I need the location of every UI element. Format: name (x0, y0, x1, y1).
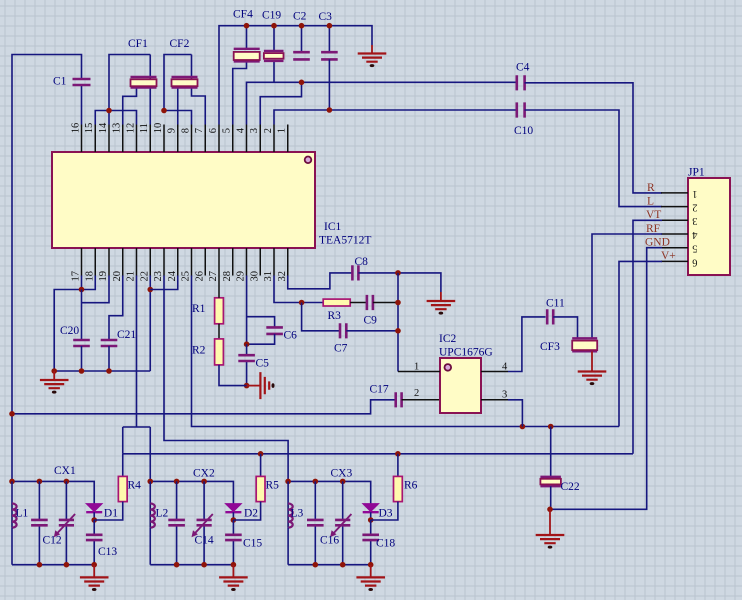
svg-text:22: 22 (139, 271, 150, 282)
ceramic filter CF2 (172, 77, 198, 88)
IC1 pin 28 (232, 248, 234, 276)
wire C22 bottom lead (550, 486, 552, 509)
junction C3 bottom node (327, 107, 333, 113)
svg-text:R5: R5 (266, 480, 280, 492)
junction C2 bus (299, 23, 305, 29)
svg-text:4: 4 (692, 229, 698, 240)
junction CX2 ground node (231, 562, 237, 568)
wire VT bus (123, 453, 633, 455)
svg-text:C1: C1 (53, 76, 67, 88)
junction pin14 (106, 108, 112, 114)
wire CX2 bottom rail (150, 564, 233, 566)
junction CX2 C bottom (174, 562, 180, 568)
ground G4 (53, 371, 55, 380)
junction pin10 (161, 108, 167, 114)
wire C2 top lead (301, 26, 303, 53)
wire R3 to C9 (350, 302, 367, 304)
svg-text:C16: C16 (320, 535, 339, 547)
svg-text:12: 12 (126, 123, 137, 134)
svg-text:CF4: CF4 (233, 9, 253, 21)
svg-text:C20: C20 (60, 325, 79, 337)
capacitor C21 (101, 340, 118, 346)
svg-text:10: 10 (153, 123, 164, 134)
wire R2 bottom to C5 node (219, 365, 247, 386)
IC1 pin 18 (94, 248, 96, 276)
svg-text:R: R (647, 182, 655, 194)
wire C22 ground stem (549, 509, 551, 535)
wire R4 bottom to diode node (94, 502, 123, 520)
wire C20 bottom (81, 346, 83, 371)
svg-text:L1: L1 (16, 508, 29, 520)
JP1 pin 5 (661, 247, 688, 249)
ground G1 top right (371, 45, 373, 53)
svg-text:13: 13 (112, 123, 123, 134)
wire C7 drop and row (302, 303, 340, 331)
wire V+ from JP1 down to V+ bus (619, 261, 662, 426)
svg-text:3: 3 (692, 215, 697, 226)
svg-text:6: 6 (208, 128, 219, 133)
svg-text:CX2: CX2 (193, 468, 215, 480)
wire pin20 jog to C21 (109, 276, 123, 341)
IC1 pin 5 (232, 125, 234, 153)
svg-text:14: 14 (98, 122, 109, 133)
capacitor CX2 fixed (176, 481, 178, 564)
JP1 pin 4 (661, 233, 688, 235)
wire pin22 down to rail (149, 276, 151, 372)
wire pin10 to pin8 tie (164, 111, 192, 125)
IC1 pin 2 (273, 125, 275, 153)
svg-text:C12: C12 (43, 535, 62, 547)
ceramic filter CF1 (131, 77, 157, 88)
IC1 pin 7 (204, 125, 206, 153)
svg-text:C15: C15 (243, 537, 262, 549)
junction pin22 (147, 287, 153, 293)
wire top bus pin6 to ground (219, 26, 372, 125)
svg-text:30: 30 (249, 271, 260, 282)
resistor R6 (397, 454, 399, 477)
svg-text:5: 5 (692, 243, 697, 254)
wire pin31 to R3 row (274, 276, 323, 303)
svg-text:31: 31 (263, 271, 274, 282)
svg-text:R6: R6 (404, 480, 418, 492)
svg-text:19: 19 (98, 271, 109, 282)
wire C17 to IC2 pin2 (402, 399, 440, 401)
IC1 pin 4 (246, 125, 248, 153)
wire R5 bottom to diode node (233, 502, 260, 520)
svg-text:28: 28 (222, 271, 233, 282)
wire CF2 left lead to pin9 (177, 88, 179, 125)
ground G3 (578, 372, 607, 380)
junction ground stem (51, 368, 57, 374)
trimmer capacitor C14 (203, 481, 205, 564)
IC1 pin 24 (177, 248, 179, 276)
wire pin22 to pin24 (150, 276, 178, 290)
svg-text:32: 32 (277, 271, 288, 282)
svg-text:L: L (647, 196, 654, 208)
JP1 pin 3 (661, 219, 688, 221)
ground G5 rotated (260, 372, 269, 399)
svg-text:JP1: JP1 (688, 167, 705, 179)
svg-text:24: 24 (167, 270, 178, 281)
svg-text:IC2: IC2 (439, 333, 457, 345)
svg-text:2: 2 (263, 128, 274, 133)
IC1 pin 11 (149, 125, 151, 153)
ground G2 (440, 292, 442, 301)
diode D1 (86, 504, 102, 512)
wire to rotated ground (247, 385, 261, 387)
wire diode to cap node (93, 512, 95, 520)
wire pins 15-14-12 tie (95, 111, 136, 125)
resistor R5 (260, 454, 262, 477)
junction CX1 ground node (91, 562, 97, 568)
svg-text:CX1: CX1 (54, 465, 76, 477)
junction C8 node (395, 270, 401, 276)
capacitor C20 (73, 340, 90, 346)
IC1 pin 27 (218, 248, 220, 276)
svg-text:16: 16 (71, 123, 82, 134)
IC1 pin 23 (163, 248, 165, 276)
trimmer capacitor C16 (342, 481, 344, 564)
svg-text:C14: C14 (195, 535, 214, 547)
IC1 pin 1 (287, 125, 289, 153)
wire C20 lead from pin17 node (81, 290, 83, 341)
svg-text:25: 25 (181, 271, 192, 282)
svg-text:C19: C19 (262, 10, 281, 22)
junction CX1 L top (9, 479, 15, 485)
junction CX3 L top (285, 479, 291, 485)
wire diode to cap node (232, 512, 234, 520)
wire node-398 vertical to IC2 pin1 (397, 273, 399, 372)
wire C6 bottom lead (247, 334, 275, 344)
wire pin19 jog (82, 276, 110, 303)
capacitor C15 (232, 520, 234, 565)
svg-text:C10: C10 (514, 125, 533, 137)
capacitor CX1 fixed (38, 481, 40, 564)
resistor R4 (118, 476, 127, 501)
junction CX2 trimmer bottom (201, 562, 207, 568)
junction C20 gnd (79, 368, 85, 374)
wire C5 leads (246, 344, 248, 385)
wire pin25 V+ bus (192, 276, 620, 427)
wire C7 to node (346, 330, 398, 332)
wire pin16 net to C1 and left rail (12, 55, 82, 482)
IC1 pin 20 (122, 248, 124, 276)
svg-text:27: 27 (208, 271, 219, 282)
junction R3 row left (299, 300, 305, 306)
wire pin21 staircase (123, 276, 151, 482)
capacitor C6 (266, 327, 283, 334)
wire C6 top lead (247, 317, 275, 328)
capacitor CX3 fixed (314, 481, 316, 564)
svg-text:R3: R3 (328, 310, 342, 322)
junction CX3 trimmer bottom (340, 562, 346, 568)
svg-text:1: 1 (692, 188, 697, 199)
svg-text:1: 1 (277, 128, 288, 133)
svg-text:26: 26 (194, 271, 205, 282)
capacitor C4 (517, 75, 525, 90)
IC1 pin 12 (136, 125, 138, 153)
wire C3 top lead (328, 26, 330, 53)
IC1 pin 6 (218, 125, 220, 153)
junction R6 on VT bus (395, 451, 401, 457)
svg-text:15: 15 (84, 123, 95, 134)
wire diode to cap node (370, 512, 372, 520)
svg-text:C3: C3 (319, 11, 333, 23)
wire C21 bottom (108, 346, 110, 371)
wire R1-R2 link (218, 324, 220, 339)
ground under CX2 (232, 565, 234, 578)
svg-text:C13: C13 (98, 546, 117, 558)
wire pin32 to C8 (288, 273, 353, 289)
junction CX1 C top (37, 479, 43, 485)
IC1 pin 10 (163, 125, 165, 153)
capacitor C7 (340, 323, 346, 338)
ground under CX3 (370, 565, 372, 578)
wire H414 from left rail to C17 (12, 400, 396, 414)
wire R6 bottom to diode node (371, 502, 398, 520)
junction CX2 L top (147, 479, 153, 485)
capacitor C22 (540, 477, 561, 486)
svg-text:L3: L3 (291, 508, 304, 520)
inductor L1 (11, 481, 13, 503)
junction D1 node (91, 517, 97, 523)
svg-text:TEA5712T: TEA5712T (319, 235, 371, 247)
IC1 pin 19 (108, 248, 110, 276)
op-amp U?: IC1 TEA5712T body (52, 152, 315, 248)
wire CF2 loop pin10 to pin8 column (164, 55, 192, 111)
svg-text:IC1: IC1 (324, 221, 342, 233)
wire GND from JP1 down to C22 node (550, 248, 662, 510)
wire pin3 riser to C2 junction (260, 82, 301, 124)
junction CX3 ground node (368, 562, 374, 568)
diode D3 (363, 504, 379, 512)
junction CX3 C top (313, 479, 319, 485)
junction C9 node (395, 300, 401, 306)
wire CX2 top rail (150, 481, 233, 504)
svg-text:CF1: CF1 (128, 38, 148, 50)
junction pin17 (79, 287, 85, 293)
wire CF4 bottom lead to pin5 (233, 61, 247, 124)
svg-text:21: 21 (126, 271, 137, 282)
crystal filter CF4 (234, 49, 260, 62)
IC1 pin 26 (204, 248, 206, 276)
wire pin23 to CX3 feed (164, 276, 288, 482)
wire RF from JP1 to CF3 (592, 234, 662, 338)
ground G9 (536, 535, 565, 543)
svg-text:R4: R4 (128, 480, 142, 492)
JP1 pin 2 (661, 206, 688, 208)
svg-text:18: 18 (84, 271, 95, 282)
svg-text:V+: V+ (661, 250, 676, 262)
IC1 pin 25 (191, 248, 193, 276)
junction C5 top (244, 341, 250, 347)
junction C21 gnd (106, 368, 112, 374)
svg-text:3: 3 (502, 390, 507, 401)
wire R1 top to pin27 (218, 276, 220, 298)
junction C22 on V+ bus (548, 424, 554, 430)
junction C19 bus (271, 23, 277, 29)
svg-text:D2: D2 (244, 508, 258, 520)
wire R4 top lead (122, 454, 124, 477)
wire C19 bottom lead (273, 61, 275, 82)
wire CX3 bottom rail (288, 564, 371, 566)
svg-text:17: 17 (71, 271, 82, 282)
capacitor C3 (321, 52, 338, 59)
resistor R1 (215, 298, 224, 324)
svg-text:C17: C17 (370, 384, 389, 396)
capacitor C9 (367, 295, 373, 310)
wire CX3 top rail (288, 481, 371, 504)
capacitor C1 (73, 79, 91, 85)
ground under CX1 (93, 565, 95, 578)
svg-text:C9: C9 (364, 315, 378, 327)
capacitor C5 (238, 355, 255, 361)
svg-text:C5: C5 (256, 358, 270, 370)
JP1 pin 6 (661, 260, 688, 262)
capacitor C11 (547, 309, 553, 324)
junction IC2 pin3 on V+ bus (520, 424, 526, 430)
connector JP1 body (688, 178, 730, 275)
svg-text:R2: R2 (192, 345, 206, 357)
wire CX1 bottom rail (12, 564, 94, 566)
svg-text:20: 20 (112, 271, 123, 282)
IC1 pin 31 (273, 248, 275, 276)
wire VT from JP1 down (633, 220, 662, 453)
svg-text:C7: C7 (334, 343, 348, 355)
wire C9 to node (373, 302, 398, 304)
junction C3 bus (327, 23, 333, 29)
svg-text:5: 5 (222, 128, 233, 133)
svg-text:D1: D1 (104, 508, 118, 520)
wire CF1 loop pin14 to pin11 (109, 55, 150, 111)
IC1 pin 17 (81, 248, 83, 276)
wire C4 to JP1 R (525, 83, 662, 193)
capacitor C10 (517, 102, 525, 117)
trimmer capacitor C12 (65, 481, 67, 564)
svg-text:UPC1676G: UPC1676G (439, 347, 493, 359)
svg-text:3: 3 (249, 128, 260, 133)
junction R5 on VT bus (258, 451, 264, 457)
svg-text:CF3: CF3 (540, 341, 560, 353)
svg-text:R1: R1 (192, 303, 206, 315)
wire CX1 top rail (12, 481, 94, 504)
junction CX1 trimmer top (64, 479, 70, 485)
IC1 pin 29 (246, 248, 248, 276)
svg-text:4: 4 (502, 362, 508, 373)
IC1 pin 9 (177, 125, 179, 153)
wire CF3 to ground G3 (591, 351, 593, 371)
junction CX2 trimmer top (201, 479, 207, 485)
wire ground rail left (54, 370, 150, 372)
svg-text:23: 23 (153, 271, 164, 282)
capacitor C13 (93, 520, 95, 565)
junction C7 node (395, 328, 401, 334)
wire C22 top lead (550, 427, 552, 477)
junction CX1 trimmer bottom (64, 562, 70, 568)
IC1 pin 21 (136, 248, 138, 276)
IC1 pin 16 (81, 125, 83, 153)
resistor R3 (323, 299, 350, 306)
svg-text:29: 29 (236, 271, 247, 282)
junction CF4 bus (244, 23, 250, 29)
IC1 pin 13 (122, 125, 124, 153)
wire C19 top lead (273, 26, 275, 51)
capacitor C2 (293, 52, 310, 59)
IC2 pin 1 (398, 371, 440, 373)
svg-text:C18: C18 (376, 537, 395, 549)
svg-text:9: 9 (167, 128, 178, 133)
svg-text:CF2: CF2 (170, 38, 190, 50)
junction CX2 C top (174, 479, 180, 485)
capacitor C18 (370, 520, 372, 565)
IC1 pin 22 (149, 248, 151, 276)
junction CX3 C bottom (313, 562, 319, 568)
junction C22 ground node (547, 507, 553, 513)
svg-text:4: 4 (236, 127, 247, 133)
wire C10 to JP1 L (525, 110, 662, 207)
junction CX3 trimmer top (340, 479, 346, 485)
wire CF4 top lead (246, 26, 248, 49)
capacitor C17 (396, 392, 402, 407)
svg-text:8: 8 (181, 128, 192, 133)
svg-text:C11: C11 (546, 298, 565, 310)
junction C2 bottom node (299, 80, 305, 86)
svg-text:11: 11 (139, 123, 150, 133)
svg-text:6: 6 (692, 256, 697, 267)
IC1 pin 32 (287, 248, 289, 276)
wire C11 to CF3 (553, 317, 577, 338)
inductor L3 (287, 481, 289, 503)
wire C3 bottom lead to H3 (328, 59, 330, 110)
IC1 pin 8 (191, 125, 193, 153)
wire pin17-18 to ground rail (54, 276, 95, 372)
svg-text:CX3: CX3 (331, 468, 353, 480)
filter CF3 (572, 338, 597, 351)
op-amp IC2 UPC1676G body (440, 358, 481, 413)
svg-text:C8: C8 (355, 256, 369, 268)
junction C5 bottom (244, 383, 250, 389)
svg-text:D3: D3 (379, 508, 393, 520)
svg-text:VT: VT (646, 209, 661, 221)
svg-text:C21: C21 (117, 329, 136, 341)
resistor R2 (215, 339, 224, 365)
wire H3 pin2 to C10 (274, 110, 517, 125)
wire C8 to ground G2 (358, 273, 441, 292)
svg-text:C4: C4 (516, 62, 530, 74)
IC1 pin 15 (94, 125, 96, 153)
capacitor C8 (352, 265, 358, 280)
IC2 pin 3 (481, 399, 508, 401)
svg-text:2: 2 (692, 202, 697, 213)
svg-text:C22: C22 (561, 481, 580, 493)
wire CF1 bottom lead to pin13 (123, 88, 137, 125)
IC1 pin 30 (259, 248, 261, 276)
junction left rail branch (9, 411, 15, 417)
IC1 pin 3 (259, 125, 261, 153)
crystal filter C19 (264, 51, 284, 61)
svg-text:7: 7 (194, 128, 205, 133)
wire H2 pin4 to C4 (247, 82, 517, 124)
junction D3 node (368, 517, 374, 523)
JP1 pin 1 (661, 192, 688, 194)
IC1 pin 14 (108, 125, 110, 153)
wire pin29 column (246, 276, 248, 345)
svg-text:1: 1 (414, 362, 419, 373)
IC2 pin 4 (481, 371, 508, 373)
diode D2 (225, 504, 241, 512)
junction D2 node (231, 517, 237, 523)
svg-text:C2: C2 (293, 11, 307, 23)
